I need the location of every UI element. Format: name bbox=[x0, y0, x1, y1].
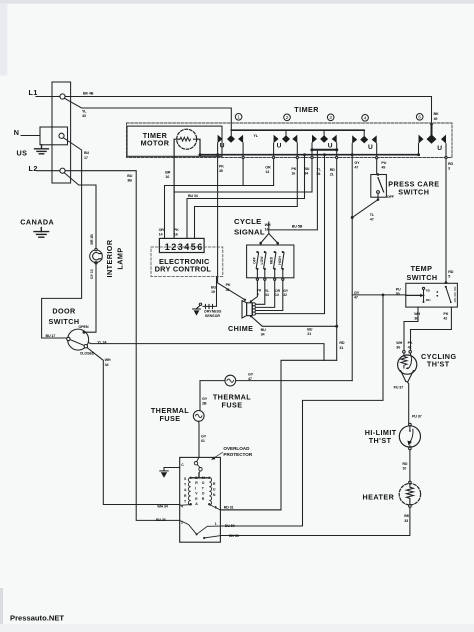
svg-text:3B: 3B bbox=[127, 179, 132, 183]
ground motor chassis bbox=[160, 468, 180, 478]
wire L2 to interior lamp bbox=[64, 173, 96, 250]
electronic dry control dashed box U2 bbox=[151, 247, 223, 277]
svg-text:BU: BU bbox=[304, 167, 310, 171]
svg-text:OR: OR bbox=[159, 228, 165, 232]
svg-text:CLOSED: CLOSED bbox=[80, 352, 95, 356]
svg-text:2: 2 bbox=[181, 520, 183, 524]
svg-text:WH: WH bbox=[426, 298, 431, 302]
wire BU36 L2 to motor bbox=[65, 171, 180, 521]
svg-text:GY: GY bbox=[354, 291, 360, 295]
svg-text:2: 2 bbox=[286, 115, 289, 120]
timer terminal 2 bbox=[284, 114, 291, 121]
label electronic dry control bbox=[155, 257, 212, 274]
cycle signal element MED bbox=[270, 251, 276, 281]
svg-text:49: 49 bbox=[434, 117, 438, 121]
svg-text:BU: BU bbox=[211, 286, 217, 290]
ground CANADA bbox=[34, 228, 49, 238]
thermal fuse F1 bbox=[225, 375, 236, 386]
cycle signal element HIGH bbox=[278, 251, 284, 281]
svg-text:6: 6 bbox=[418, 115, 421, 120]
svg-text:SWITCH: SWITCH bbox=[398, 187, 429, 196]
svg-text:HIGH: HIGH bbox=[278, 256, 282, 265]
svg-text:1: 1 bbox=[215, 522, 217, 526]
svg-text:U: U bbox=[437, 145, 442, 152]
wire WH36 temp switch to cycling thermostat bbox=[404, 307, 418, 351]
top-left placeholder box bbox=[0, 4, 8, 76]
svg-text:47: 47 bbox=[370, 217, 374, 221]
wire cycle element 3 to chime coil bbox=[256, 280, 275, 307]
ground dryness sensor bbox=[193, 305, 201, 315]
wire tick bus to contact2 bbox=[285, 130, 287, 135]
svg-text:21: 21 bbox=[307, 332, 311, 336]
chime speaker LS1 bbox=[242, 299, 255, 318]
wire cycle element 4 to chime coil bbox=[256, 280, 283, 310]
cycle signal resistor box bbox=[247, 245, 294, 278]
svg-text:GY: GY bbox=[202, 397, 208, 401]
svg-text:CANADA: CANADA bbox=[20, 217, 54, 226]
wire GY47 contact4 left leg down to fuse line bbox=[351, 144, 354, 381]
svg-text:U: U bbox=[277, 142, 282, 149]
wire YL24 jog and motor run net bbox=[220, 360, 336, 510]
svg-text:GY 13: GY 13 bbox=[90, 269, 94, 279]
wire contact3 left leg bbox=[311, 143, 313, 192]
cycle signal element OFF bbox=[252, 251, 258, 281]
wire bus corner into contact4 bbox=[363, 130, 365, 136]
svg-text:45: 45 bbox=[219, 169, 223, 173]
dryness sensor electrodes bbox=[199, 303, 212, 309]
svg-text:50: 50 bbox=[396, 292, 400, 296]
svg-text:INTERIOR: INTERIOR bbox=[105, 239, 114, 277]
svg-text:43: 43 bbox=[82, 114, 86, 118]
wire PU49 contact4 right leg to press care switch bbox=[376, 144, 378, 175]
svg-text:PROTECTOR: PROTECTOR bbox=[223, 452, 252, 457]
svg-text:PU: PU bbox=[396, 288, 401, 292]
wire RD10 hi-limit to heater bbox=[409, 450, 411, 482]
svg-text:WH: WH bbox=[105, 358, 111, 362]
svg-text:RD: RD bbox=[448, 162, 454, 166]
svg-text:BU: BU bbox=[307, 328, 313, 332]
svg-text:5: 5 bbox=[448, 274, 450, 278]
svg-text:LOW: LOW bbox=[260, 256, 264, 265]
svg-text:OFF: OFF bbox=[252, 257, 256, 264]
wire TL54 from bar to cycle signal bbox=[269, 151, 318, 230]
svg-text:RD: RD bbox=[330, 168, 336, 172]
svg-text:DOOR: DOOR bbox=[52, 307, 76, 316]
timer cam contact 2 bbox=[274, 135, 298, 143]
svg-text:5: 5 bbox=[215, 505, 217, 509]
svg-text:47: 47 bbox=[354, 165, 358, 169]
svg-text:19: 19 bbox=[211, 290, 215, 294]
motor run winding bbox=[209, 478, 211, 506]
node N bbox=[21, 127, 68, 145]
svg-text:L2: L2 bbox=[29, 164, 38, 173]
svg-text:36: 36 bbox=[414, 316, 418, 320]
label dryness sensor bbox=[204, 310, 223, 318]
svg-text:Pressauto.NET: Pressauto.NET bbox=[10, 614, 64, 623]
svg-text:42: 42 bbox=[283, 293, 287, 297]
heater HTR1 bbox=[399, 481, 420, 507]
svg-text:TIMER: TIMER bbox=[294, 105, 319, 114]
timer cam contact 1 bbox=[218, 135, 244, 143]
svg-text:BK 4B: BK 4B bbox=[83, 91, 94, 95]
motor winding bottom ties bbox=[180, 503, 221, 510]
svg-text:16: 16 bbox=[165, 175, 169, 179]
svg-text:3: 3 bbox=[329, 115, 332, 120]
wire PU37 cycling to hi-limit bbox=[407, 382, 409, 424]
wire GY47 thermal fuse line bbox=[236, 380, 352, 382]
svg-text:42: 42 bbox=[408, 345, 412, 349]
wire tick bus to contact3 bbox=[323, 130, 325, 135]
svg-text:TH'ST: TH'ST bbox=[427, 360, 450, 369]
svg-text:RD: RD bbox=[426, 289, 430, 293]
wire contact5 left leg to bus bbox=[417, 144, 420, 157]
electronic dry control terminal strip bbox=[159, 238, 204, 252]
svg-text:PK: PK bbox=[219, 165, 224, 169]
wire timer motor left BR16 riser bbox=[174, 139, 180, 238]
svg-text:MOTOR: MOTOR bbox=[141, 139, 170, 148]
wire BK48 L1 to timer right bbox=[65, 97, 433, 136]
svg-text:45: 45 bbox=[226, 288, 230, 292]
svg-text:L1: L1 bbox=[29, 88, 38, 97]
left gray edge bbox=[0, 588, 3, 625]
svg-text:PU 37: PU 37 bbox=[394, 386, 404, 390]
svg-text:PK: PK bbox=[443, 312, 448, 316]
timer motor M1 bbox=[177, 129, 197, 149]
svg-text:BU: BU bbox=[261, 328, 267, 332]
wire BU19 to dryness sensor bbox=[203, 277, 217, 307]
wire lamp to door switch open contact bbox=[86, 263, 97, 333]
svg-text:SWITCH: SWITCH bbox=[48, 317, 79, 326]
svg-text:SENSOR: SENSOR bbox=[205, 314, 221, 318]
svg-text:MED: MED bbox=[270, 256, 274, 264]
svg-text:BU: BU bbox=[84, 151, 90, 155]
bottom light band bbox=[0, 624, 474, 632]
svg-text:LAMP: LAMP bbox=[116, 247, 125, 269]
svg-text:5: 5 bbox=[257, 293, 259, 297]
svg-text:2B: 2B bbox=[202, 402, 207, 406]
svg-text:PU 37: PU 37 bbox=[412, 414, 422, 418]
wire RD31 motor terminal 5 bbox=[220, 509, 281, 511]
svg-text:RD 31: RD 31 bbox=[224, 506, 234, 510]
svg-text:WH: WH bbox=[414, 312, 420, 316]
timer motor box bbox=[127, 126, 222, 156]
interior lamp LP1 bbox=[90, 248, 103, 264]
svg-text:47: 47 bbox=[354, 295, 358, 299]
motor winding top ties bbox=[190, 473, 211, 479]
svg-text:16: 16 bbox=[265, 227, 269, 231]
svg-text:RD: RD bbox=[448, 270, 454, 274]
svg-text:BU 17: BU 17 bbox=[46, 334, 56, 338]
svg-text:N: N bbox=[14, 128, 20, 137]
wire thermal fuse F1 to F2 bbox=[200, 381, 225, 411]
timer common bus bbox=[200, 154, 419, 156]
drive motor box M2 bbox=[180, 457, 221, 542]
wire cycle element 1 to chime bbox=[251, 280, 258, 301]
svg-text:16: 16 bbox=[291, 171, 295, 175]
svg-text:HEATER: HEATER bbox=[363, 493, 395, 502]
timer terminal 6 bbox=[416, 114, 423, 121]
svg-text:BU 50: BU 50 bbox=[225, 524, 235, 528]
motor centrifugal switch bbox=[180, 520, 221, 539]
svg-text:SWITCH: SWITCH bbox=[407, 273, 438, 282]
timer YL bus bbox=[231, 129, 364, 131]
timer enclosure dashed bbox=[127, 123, 453, 158]
svg-text:BU 36: BU 36 bbox=[156, 518, 166, 522]
top gray band bbox=[0, 0, 474, 4]
wire RD31 contact3 right leg down bbox=[335, 143, 338, 360]
svg-text:1: 1 bbox=[237, 115, 240, 120]
svg-text:BR 1B: BR 1B bbox=[90, 234, 94, 245]
label overload protector arrow bbox=[211, 453, 223, 460]
svg-text:3: 3 bbox=[448, 167, 450, 171]
wire BU34 chime output bbox=[251, 316, 337, 326]
svg-text:4: 4 bbox=[181, 504, 183, 508]
svg-text:WH: WH bbox=[265, 223, 271, 227]
svg-text:DRYNESS: DRYNESS bbox=[204, 310, 222, 314]
cycling thermostat TH1 bbox=[398, 351, 417, 382]
svg-text:PK: PK bbox=[291, 167, 296, 171]
svg-text:GY: GY bbox=[354, 161, 360, 165]
svg-text:49: 49 bbox=[381, 166, 385, 170]
svg-text:BU: BU bbox=[127, 174, 133, 178]
svg-text:10: 10 bbox=[402, 466, 406, 470]
svg-text:42: 42 bbox=[443, 316, 447, 320]
svg-text:WH 34: WH 34 bbox=[157, 504, 169, 508]
svg-text:BK: BK bbox=[434, 112, 440, 116]
svg-text:PK: PK bbox=[226, 283, 231, 287]
svg-text:17: 17 bbox=[84, 156, 88, 160]
svg-text:4: 4 bbox=[364, 116, 367, 121]
svg-text:PU: PU bbox=[381, 161, 386, 165]
timer terminal 4 bbox=[362, 115, 369, 122]
svg-text:PK: PK bbox=[408, 341, 413, 345]
door switch S1 bbox=[67, 329, 89, 350]
wire OR14 feeder to EDC terminal 1 bbox=[165, 186, 274, 239]
svg-text:16: 16 bbox=[174, 233, 178, 237]
timer terminal 1 bbox=[235, 114, 242, 121]
wire RD21 riser bus to chime coil bbox=[256, 153, 327, 313]
svg-text:BU 34: BU 34 bbox=[188, 194, 199, 198]
svg-text:33: 33 bbox=[404, 519, 408, 523]
svg-text:CHIME: CHIME bbox=[228, 324, 253, 333]
wire PK42 temp switch to cycling thermostat bbox=[411, 307, 452, 351]
wire BK33 heater to motor bbox=[220, 508, 410, 536]
svg-text:CYCLE: CYCLE bbox=[234, 217, 262, 226]
svg-text:GY: GY bbox=[201, 434, 207, 438]
svg-text:OPEN: OPEN bbox=[79, 325, 89, 329]
svg-text:TEMP: TEMP bbox=[411, 264, 433, 273]
svg-text:13: 13 bbox=[275, 293, 279, 297]
wire YL43 from L1 bbox=[64, 98, 231, 135]
cycle signal element LOW bbox=[260, 251, 266, 281]
svg-text:DRY CONTROL: DRY CONTROL bbox=[155, 264, 212, 273]
cycle signal selector tent bbox=[259, 222, 279, 245]
svg-text:RD: RD bbox=[402, 462, 408, 466]
wire GY61 fuse F2 to motor bbox=[198, 421, 200, 457]
svg-text:BK: BK bbox=[404, 514, 410, 518]
svg-text:RD: RD bbox=[339, 341, 345, 345]
svg-text:OFF: OFF bbox=[387, 195, 395, 199]
motor start winding bbox=[188, 478, 190, 506]
timer terminal 3 bbox=[327, 114, 334, 121]
wire cycle element 2 to chime coil bbox=[256, 280, 265, 304]
wire TL47 press care to GY47 junction bbox=[352, 200, 378, 218]
wire PU50 temp switch to motor bbox=[220, 294, 384, 527]
wire PK16 contact2 right leg to EDC bbox=[195, 143, 299, 238]
overload protector OL1 bbox=[194, 457, 202, 473]
thermal fuse F2 bbox=[193, 411, 204, 422]
wire GY47 branch to temp switch bbox=[352, 294, 406, 296]
svg-text:PK: PK bbox=[174, 228, 179, 232]
terminal block TB1 bbox=[52, 82, 71, 183]
svg-text:WH: WH bbox=[396, 341, 402, 345]
svg-text:OVERLOAD: OVERLOAD bbox=[223, 446, 250, 451]
svg-text:BR: BR bbox=[165, 170, 171, 174]
wire RD3 contact5 right leg to temp switch bbox=[445, 144, 448, 284]
wire contact2 left leg bbox=[273, 143, 275, 186]
press care switch S2 bbox=[371, 173, 387, 201]
svg-text:21: 21 bbox=[330, 172, 334, 176]
svg-text:47: 47 bbox=[248, 377, 252, 381]
svg-text:34: 34 bbox=[265, 293, 269, 297]
wire OR14 contact1 right leg bbox=[242, 143, 244, 186]
svg-text:31: 31 bbox=[339, 346, 343, 350]
wire feeder to EDC terminal 2 bbox=[174, 191, 312, 193]
svg-text:OR: OR bbox=[265, 166, 271, 170]
wire BU34 riser bus to EDC bbox=[187, 153, 306, 238]
svg-text:BU 5B: BU 5B bbox=[292, 225, 303, 229]
svg-text:U: U bbox=[368, 144, 373, 151]
svg-text:FUSE: FUSE bbox=[160, 414, 181, 423]
timer cam contact 3 bbox=[312, 135, 337, 143]
svg-text:BK 33: BK 33 bbox=[229, 534, 239, 538]
ground US bbox=[35, 145, 49, 154]
svg-text:FUSE: FUSE bbox=[222, 401, 243, 410]
svg-text:GY: GY bbox=[248, 372, 254, 376]
svg-text:36: 36 bbox=[396, 345, 400, 349]
timer cam contact 5 bbox=[419, 134, 447, 143]
node L1 bbox=[36, 94, 65, 99]
wire BU17 N to door switch bbox=[42, 138, 82, 338]
hi-limit thermostat TH2 bbox=[399, 423, 420, 449]
wire YL24 door switch to right bbox=[89, 343, 324, 361]
svg-text:SIGNAL: SIGNAL bbox=[234, 228, 265, 237]
wire timer motor right to bus bbox=[194, 139, 202, 156]
svg-text:YL 24: YL 24 bbox=[97, 340, 107, 344]
shorting bar contact 3 bbox=[310, 148, 338, 151]
svg-text:US: US bbox=[17, 149, 28, 158]
timer cam contact 4 bbox=[352, 135, 377, 143]
wire WH34 door switch to motor bbox=[87, 348, 179, 505]
temp switch S3 bbox=[406, 283, 458, 307]
wire PK45 contact1 left leg to bus and chime bbox=[216, 143, 245, 300]
svg-text:U: U bbox=[220, 142, 225, 149]
svg-text:U: U bbox=[328, 142, 333, 149]
node L2 bbox=[37, 168, 65, 173]
svg-text:61: 61 bbox=[201, 439, 205, 443]
svg-text:TH'ST: TH'ST bbox=[369, 436, 392, 445]
